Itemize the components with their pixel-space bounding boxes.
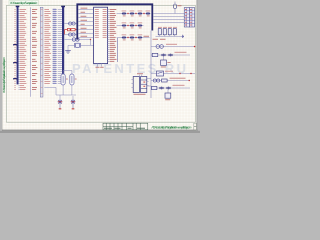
connector J1 body bar <box>17 6 19 84</box>
label CN3 top <box>137 72 143 75</box>
connector J2 body bar <box>62 6 64 84</box>
grid pattern <box>2 0 198 131</box>
junction dot row A <box>194 46 196 48</box>
connector CN2 cell lines <box>184 11 194 24</box>
connector J2 pin ticks <box>58 9 62 83</box>
wire chain row C <box>151 73 195 75</box>
value D5 <box>123 27 126 30</box>
wire bead row 3 <box>65 39 91 41</box>
connector J1 section arm 2 <box>13 44 17 46</box>
svg-text:PDF created with pdfFactory tr: PDF created with pdfFactory trial versio… <box>2 57 6 93</box>
TVS diode D11 <box>137 36 142 39</box>
watermark text top-left <box>9 0 38 5</box>
connector CN3 right half cells <box>141 80 147 88</box>
wire bead row 2 <box>65 34 77 36</box>
label row D long <box>170 78 186 79</box>
label C21 <box>161 62 171 67</box>
connector J1 section arm 4 <box>13 78 17 80</box>
value D7 <box>139 27 142 30</box>
label D3 <box>138 10 143 13</box>
label CE2 <box>75 78 77 81</box>
IC U1 right pin ticks <box>108 9 110 61</box>
capacitor C13 <box>168 29 171 35</box>
switch SW1 row C <box>157 71 164 76</box>
ground symbol crystal <box>65 51 71 54</box>
label D6 <box>130 21 135 24</box>
wire row B drop <box>163 57 165 61</box>
wires to connector CN2 <box>153 14 184 23</box>
connector CN2 mid lines <box>187 8 192 27</box>
connector CN3 body right half <box>141 77 147 93</box>
label D1 <box>122 10 127 13</box>
diode D32 row E <box>166 87 171 90</box>
label C31 <box>165 98 170 101</box>
frame zone boxes bottom-right <box>194 123 197 126</box>
label row E <box>173 85 185 86</box>
connector CN3 cell dots <box>143 82 145 87</box>
TVS diode D3 <box>137 12 142 15</box>
connector J1 pin name labels <box>20 9 27 90</box>
label TP1 <box>178 4 182 7</box>
resistor pack RP1 tall box <box>40 7 43 97</box>
junction dot crystal <box>90 39 91 40</box>
capacitor C31 below row E <box>165 93 171 98</box>
diode D22 row B <box>168 54 173 57</box>
wire caps row bottom rail <box>156 35 182 37</box>
chassis star symbol G1 <box>58 99 63 108</box>
junction dots diode row 2 <box>127 25 136 26</box>
label D10 <box>130 33 135 36</box>
label caps row net <box>153 38 166 41</box>
title block tiny text <box>104 127 145 130</box>
value D10 <box>131 39 134 42</box>
label CN3 bottom <box>134 93 146 96</box>
value D4 <box>147 15 150 18</box>
capacitor CE1 vertical <box>61 74 65 85</box>
wire ESD diode row 1 <box>117 13 150 15</box>
value D2 <box>131 15 134 18</box>
schematic frame border <box>6 5 195 122</box>
connector J2 net flag arrows <box>53 9 58 84</box>
TVS diode D1 <box>121 12 126 15</box>
wire chain row A <box>151 46 196 48</box>
TVS diode D2 <box>129 12 134 15</box>
connector J1 pin ticks <box>19 9 20 89</box>
connector J1 pin numbers left <box>14 9 16 90</box>
wire ESD diode row 2 <box>117 25 144 27</box>
bead FB3 row D <box>153 79 160 82</box>
label D7 <box>138 21 143 24</box>
ferrite bead L2 <box>69 33 76 36</box>
IC U1 bottom power stubs <box>98 64 102 67</box>
wire row E drop <box>167 90 169 94</box>
wire right rail <box>150 31 152 99</box>
wire crystal net <box>68 44 74 46</box>
IC U1 body <box>94 7 108 63</box>
decoupling caps row labels <box>158 26 177 29</box>
title block revision table <box>103 123 148 130</box>
junction dots diode row 3 <box>127 37 136 38</box>
ferrite bead L3 <box>72 38 79 41</box>
TVS diode D4 <box>145 12 150 15</box>
wire crystal drop <box>90 40 92 46</box>
IC U1 right inside pin names <box>103 9 107 38</box>
antenna symbol TP1 <box>173 2 176 14</box>
capacitor C14 <box>173 29 176 35</box>
diode D21 row B <box>161 54 166 57</box>
wire chain row E <box>151 87 190 89</box>
TVS diode D6 <box>129 24 134 27</box>
net labels bus to IC wires <box>81 8 88 37</box>
page outer edges <box>0 0 3 133</box>
label D5 <box>122 21 127 24</box>
connector J2 net labels <box>44 9 51 84</box>
junction dot row D <box>189 80 190 81</box>
wire bead row 1 <box>64 23 77 25</box>
value D9 <box>123 39 126 42</box>
wire caps to stars <box>44 85 76 100</box>
connector CN3 pin stubs <box>131 75 148 88</box>
power bus thick polyline <box>77 4 152 39</box>
junction dot red net <box>70 29 72 31</box>
crystal Y1 <box>74 43 80 48</box>
label D4 <box>146 10 151 13</box>
label row B <box>175 52 187 53</box>
label D2 <box>130 10 135 13</box>
svg-text:PDF created with pdfFactory tr: PDF created with pdfFactory trial versio… <box>152 126 192 130</box>
wires bus to IC U1 left pins <box>78 10 93 38</box>
svg-text:PDF created with pdfFactory tr: PDF created with pdfFactory trial versio… <box>10 1 38 5</box>
wire chain row B <box>151 54 190 56</box>
value D1 <box>123 15 126 18</box>
chassis star symbol G2 <box>71 99 76 108</box>
net bus line left column <box>30 7 32 97</box>
wires CN3 to rail <box>147 79 151 87</box>
wire chain row D <box>151 80 190 82</box>
resistor pack RP1 inner marks <box>41 9 43 94</box>
TVS diode D9 <box>121 36 126 39</box>
value D3 <box>139 15 142 18</box>
sheet background <box>0 0 200 133</box>
label CE1 <box>66 78 68 81</box>
ferrite bead L1 <box>69 22 76 25</box>
connector CN3 body left half <box>133 77 139 93</box>
junction dots diode row 1 <box>127 13 144 14</box>
wire ground stem <box>67 45 69 50</box>
wire caps row stems <box>160 35 175 37</box>
junction dots row C <box>179 73 191 74</box>
bead FB2 row A <box>156 45 163 49</box>
value D11 <box>139 39 142 42</box>
TVS diode D5 <box>121 24 126 27</box>
connector J1 section arm 3 <box>13 62 17 64</box>
capacitor C21 below row B <box>161 60 167 65</box>
IC U1 right outside net labels <box>110 9 117 62</box>
connector CN2 pin dots <box>185 9 192 25</box>
resistor R21 row B <box>152 53 158 56</box>
label diode row 3 right <box>144 35 150 38</box>
capacitor C11 <box>158 29 161 35</box>
label row C <box>165 70 173 73</box>
label D9 <box>122 33 127 36</box>
net name labels mid column <box>32 9 37 90</box>
label D11 <box>138 33 143 36</box>
diode D31 row E <box>159 87 164 90</box>
capacitor CE2 vertical <box>70 74 74 85</box>
resistor R31 row D <box>162 79 168 82</box>
resistor R32 row E <box>152 86 157 89</box>
value D6 <box>131 27 134 30</box>
wire J2 bottom to caps <box>63 71 72 75</box>
ground symbol caps row <box>181 35 184 38</box>
connector CN2 grid body <box>184 8 194 27</box>
TVS diode D10 <box>129 36 134 39</box>
red net wire segment <box>65 28 77 34</box>
capacitor C12 <box>163 29 166 35</box>
wire rail right of IC <box>117 38 119 62</box>
wire ESD diode row 3 <box>117 37 150 39</box>
IC U1 bottom stub labels <box>96 66 104 69</box>
IC U1 left inside pin names <box>95 9 99 38</box>
label row A <box>166 44 177 45</box>
TVS diode D7 <box>137 24 142 27</box>
